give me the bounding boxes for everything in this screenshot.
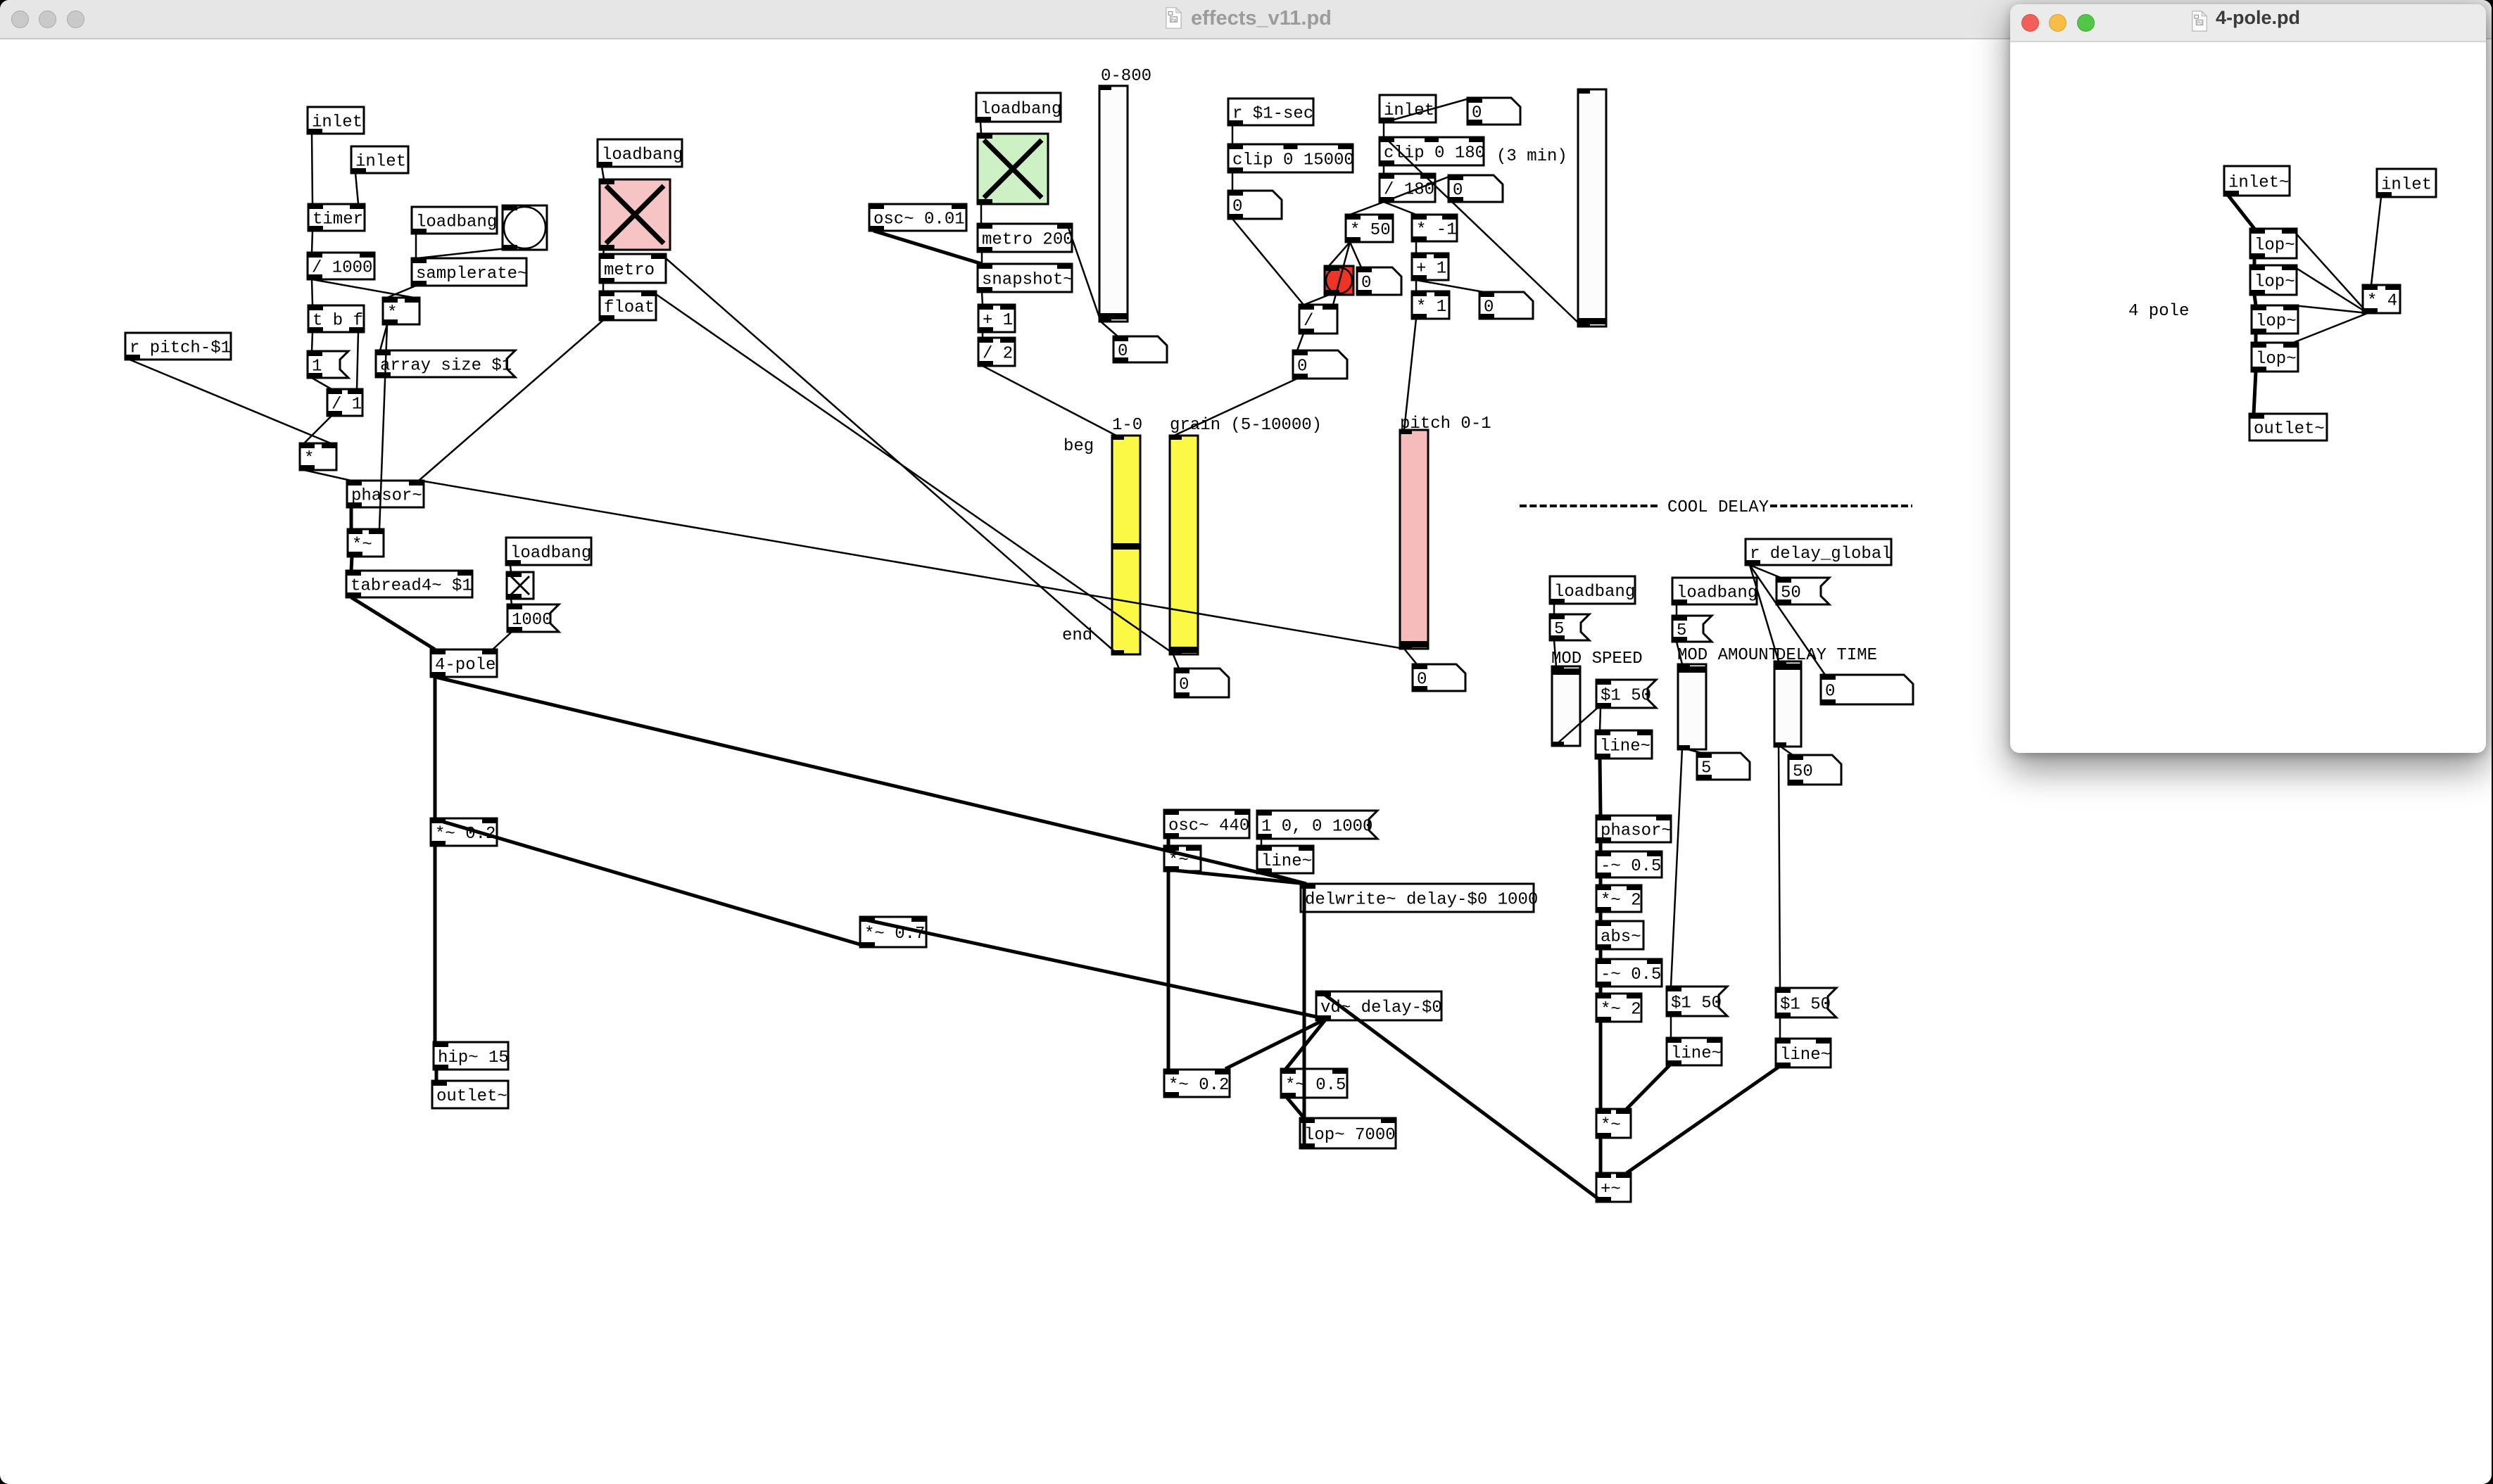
object loadbang (cutoff): [506, 538, 591, 565]
svg-text:$1 50: $1 50: [1601, 687, 1651, 706]
wire /1000 to * size R: [312, 279, 414, 298]
object * 4: [2363, 285, 2400, 313]
wire *~ to tabread4~: [351, 557, 352, 571]
wire loadbang to samplerate~: [415, 234, 417, 258]
traffic light close (inactive): [11, 11, 29, 28]
object / 180: [1380, 174, 1435, 202]
wire * 4 to lop~ 4 R: [2293, 313, 2368, 343]
wire mod amount slider to $1 50: [1671, 748, 1682, 987]
object lop~ 3: [2252, 305, 2298, 334]
svg-text:50: 50: [1781, 584, 1801, 603]
wire * 4 to lop~ 2 R: [2292, 265, 2368, 313]
object -~ 0.5 (b): [1596, 959, 1662, 987]
svg-text:vd~ delay-$0: vd~ delay-$0: [1320, 998, 1442, 1017]
svg-text:/ 2: / 2: [983, 345, 1013, 364]
number 0 (grain): [1175, 668, 1229, 697]
wire *~ 0.2 to hip~: [434, 846, 437, 1042]
wire inlet~ to lop~ 1: [2228, 196, 2254, 229]
svg-text:loadbang: loadbang: [1677, 584, 1757, 603]
object *~ (mod mult): [1596, 1109, 1631, 1138]
object r delay_global: [1746, 539, 1892, 565]
svg-text:hip~ 15: hip~ 15: [438, 1048, 509, 1067]
wire tabread4~ to 4-pole: [351, 597, 435, 649]
vslider 0-800: [1099, 86, 1128, 322]
svg-text:0: 0: [1472, 104, 1482, 123]
wire $1 50 to line~ amt: [1670, 1016, 1672, 1038]
object loadbang (metro): [598, 139, 683, 167]
svg-text:inlet~: inlet~: [2228, 174, 2289, 193]
wire msg 1 0 0 1000 to line~: [1261, 839, 1263, 846]
object loadbang (samplerate): [412, 207, 497, 234]
svg-text:+ 1: + 1: [983, 311, 1013, 330]
svg-text:phasor~: phasor~: [1601, 822, 1672, 841]
comment COOL DELAY header: [1520, 498, 1912, 517]
wire lop~ 4 to outlet~: [2254, 372, 2256, 414]
svg-text:0: 0: [1179, 676, 1189, 695]
wire pitch slider to number 0: [1404, 649, 1417, 664]
svg-text:line~: line~: [1780, 1046, 1831, 1065]
svg-text:loadbang: loadbang: [1554, 583, 1635, 602]
object inlet (timer R): [351, 146, 408, 173]
wire toggle to msg 1000: [511, 599, 512, 604]
vslider mod speed: [1552, 666, 1580, 746]
svg-text:loadbang: loadbang: [602, 146, 683, 165]
object vd~ delay-$0: [1316, 991, 1442, 1020]
wire 0-800 slider to number: [1101, 322, 1118, 336]
wire t b f to msg 1: [312, 332, 313, 351]
wire bng to / L: [1304, 295, 1329, 305]
svg-text:beg: beg: [1064, 437, 1094, 456]
wire sec slider out to clip 0 180: [1384, 137, 1582, 326]
svg-text:0: 0: [1484, 298, 1494, 317]
wire grain slider to number 0: [1173, 653, 1179, 668]
traffic light minimize: [2049, 14, 2066, 32]
number 0 (pitch): [1413, 664, 1465, 691]
svg-text:line~: line~: [1261, 852, 1312, 871]
svg-text:*: *: [304, 450, 314, 469]
pd document icon: [1166, 7, 1182, 29]
wire loadbang to msg 5 speed: [1553, 604, 1555, 614]
wire lop~ 1 to lop~ 2: [2253, 258, 2257, 265]
wire *~ 2 to abs~: [1599, 912, 1603, 921]
svg-text:1000: 1000: [512, 611, 553, 630]
svg-text:/: /: [1304, 312, 1313, 331]
svg-text:r $1-sec: r $1-sec: [1232, 105, 1313, 124]
svg-text:array size $1: array size $1: [380, 357, 512, 376]
svg-text:1: 1: [312, 357, 322, 376]
svg-text:1 0, 0 1000: 1 0, 0 1000: [1261, 818, 1372, 837]
wire lop~ 3 to lop~ 4: [2254, 334, 2258, 343]
svg-text:* -1: * -1: [1416, 221, 1457, 240]
traffic light close: [2021, 14, 2039, 32]
wire number 0 to / L: [1232, 219, 1304, 305]
wire osc~ 440 to *~: [1167, 837, 1170, 846]
object / 1: [327, 389, 362, 416]
object / (div): [1299, 305, 1337, 334]
wire line~ speed to phasor~ mod: [1600, 757, 1601, 816]
wire r $1-sec to clip: [1232, 125, 1234, 144]
number 0 (x50): [1357, 267, 1401, 295]
wire inlet to * 4: [2371, 197, 2381, 285]
object clip 0 15000: [1228, 144, 1354, 172]
svg-text:abs~: abs~: [1601, 928, 1641, 947]
toggle (cutoff): [507, 572, 534, 599]
wire mod amount slider to number 5: [1682, 748, 1701, 753]
object lop~ 4: [2252, 343, 2298, 372]
svg-text:samplerate~: samplerate~: [416, 265, 527, 284]
svg-text:0: 0: [1417, 671, 1427, 690]
svg-text:0: 0: [1118, 342, 1128, 361]
object loadbang (mod speed): [1550, 576, 1635, 604]
object *~ (playback): [348, 529, 384, 557]
svg-text:grain (5-10000): grain (5-10000): [1170, 416, 1322, 435]
svg-text:line~: line~: [1600, 737, 1651, 756]
object osc~ 440: [1164, 810, 1249, 838]
message 1000: [507, 604, 559, 632]
object outlet~ (4-pole): [2249, 414, 2327, 440]
svg-text:lop~: lop~: [2256, 350, 2297, 369]
wire *~ 0.5 to lop~: [1286, 1096, 1304, 1118]
object lop~ 1: [2250, 229, 2297, 258]
wire grain slider out to float R: [652, 291, 1173, 653]
object *~ (beep): [1164, 846, 1201, 871]
wire * size to *~ R: [379, 324, 387, 529]
wire t b f to /1 R: [357, 332, 358, 389]
wire / 2 to beg slider: [983, 366, 1116, 436]
wire + 1 to * 1: [1415, 280, 1418, 291]
svg-text:* 4: * 4: [2367, 292, 2397, 311]
message 1: [308, 351, 348, 378]
object abs~: [1596, 921, 1643, 949]
message 1 0, 0 1000: [1257, 811, 1377, 839]
svg-text:*~ 2: *~ 2: [1601, 892, 1641, 911]
wire -~ 0.5 to *~ 2: [1599, 877, 1603, 885]
wire clip 0 180 to / 180: [1383, 165, 1385, 174]
wire $1 50 to line~ dt: [1779, 1017, 1781, 1039]
message array size $1: [376, 350, 515, 377]
wire / 180 to * 50: [1350, 202, 1384, 215]
object *~ 0.2 (wet gain): [1164, 1070, 1230, 1097]
object / 1000: [308, 253, 374, 279]
object + 1 (dir): [1412, 253, 1449, 280]
svg-text:osc~ 440: osc~ 440: [1168, 817, 1249, 836]
svg-text:MOD AMOUNT: MOD AMOUNT: [1677, 646, 1779, 665]
svg-text:outlet~: outlet~: [436, 1087, 507, 1106]
wire r delay_global to number 0: [1750, 565, 1825, 675]
wire mod speed slider to $1 50: [1556, 706, 1599, 744]
svg-text:0: 0: [1453, 182, 1463, 201]
wire inlet to clip 0 180: [1383, 122, 1385, 137]
vslider pitch pink: [1400, 430, 1428, 649]
window title 4-pole.pd: [2216, 7, 2300, 29]
wire -~ 0.5 b to *~ 2 b: [1599, 987, 1603, 994]
svg-text:metro: metro: [604, 261, 655, 280]
pd document icon small: [2192, 11, 2207, 32]
wire *~ beep to *~ 0.2 wet: [1167, 870, 1170, 1070]
svg-text:5: 5: [1701, 759, 1711, 778]
wire abs~ to -~ 0.5 b: [1599, 949, 1603, 959]
wire * 4 to lop~ 1 R: [2292, 229, 2368, 313]
wire inletA to timer: [312, 134, 313, 204]
object / 2: [978, 338, 1015, 366]
svg-text:0: 0: [1825, 683, 1835, 702]
wire inlet to number 0 raw: [1384, 98, 1472, 122]
object inlet (timer L): [308, 107, 364, 134]
svg-text:(3 min): (3 min): [1496, 147, 1567, 166]
wire 4-pole to *~ 0.2: [434, 677, 437, 818]
wire *~ 2 b to *~ mult: [1599, 1022, 1603, 1109]
wire lop~ 2 to lop~ 3: [2254, 295, 2256, 305]
object + 1 (snap): [978, 305, 1015, 332]
wire beg slider out to metro R: [661, 254, 1116, 653]
wire * 4 to lop~ 3 R: [2293, 305, 2368, 313]
message $1 50 (mod amt): [1667, 987, 1727, 1016]
object loadbang (grain metro): [976, 93, 1061, 122]
wire bng to samplerate~: [417, 248, 507, 258]
number 50 (delay time): [1788, 755, 1841, 785]
object inlet (minutes): [1380, 95, 1436, 122]
object *~ 0.2 (out gain): [431, 818, 497, 846]
svg-text:/ 1000: / 1000: [312, 259, 372, 278]
svg-text:*~ 0.2: *~ 0.2: [1168, 1076, 1229, 1095]
object 4-pole: [431, 649, 497, 677]
svg-text:inlet: inlet: [312, 113, 362, 132]
object +~ (delay sum): [1596, 1173, 1631, 1202]
object r $1-sec: [1228, 99, 1313, 125]
wire msg 1000 to 4-pole R: [493, 632, 512, 649]
wire 4-pole to delwrite~: [435, 677, 1306, 884]
svg-text:-~ 0.5: -~ 0.5: [1601, 857, 1661, 876]
object osc~ 0.01: [869, 204, 966, 231]
object hip~ 15: [434, 1042, 509, 1070]
svg-text:loadbang: loadbang: [510, 544, 591, 563]
svg-text:lop~: lop~: [2254, 236, 2295, 255]
wire + 1 to / 2: [982, 331, 984, 338]
wire snapshot~ to + 1: [982, 292, 983, 305]
wire clip to number 0: [1232, 172, 1234, 191]
svg-text:lop~: lop~: [2254, 273, 2295, 292]
wire loadbang to green toggle: [980, 122, 981, 134]
object delwrite~ delay-$0 1000: [1301, 884, 1538, 912]
svg-text:0: 0: [1232, 198, 1242, 217]
svg-text:/ 1: / 1: [332, 395, 362, 414]
wire * 50 to / R: [1333, 242, 1350, 305]
wire inletB to timer R: [355, 173, 358, 204]
object *~ 2 (b): [1596, 994, 1641, 1022]
object snapshot~: [978, 264, 1073, 292]
svg-text:+~: +~: [1601, 1180, 1621, 1199]
wire $1 50 to line~ speed: [1600, 708, 1601, 730]
object *~ 2 (a): [1596, 885, 1641, 912]
svg-text:50: 50: [1793, 763, 1813, 782]
object *~ 0.5: [1281, 1069, 1347, 1098]
wire * -1 to + 1: [1415, 241, 1418, 253]
wire * size to msg array size: [380, 324, 387, 350]
wire msg 5 to mod speed slider: [1554, 640, 1556, 666]
wire /1000 to t b f: [312, 279, 313, 305]
wire loadbang to toggle: [510, 565, 511, 572]
svg-text:clip 0 180: clip 0 180: [1384, 144, 1485, 163]
svg-text:*: *: [387, 304, 397, 323]
svg-text:4 pole: 4 pole: [2128, 302, 2189, 321]
object metro: [600, 254, 666, 283]
svg-text:r delay_global: r delay_global: [1750, 545, 1892, 564]
wire /1 to *: [304, 416, 332, 443]
svg-text:1-0: 1-0: [1112, 416, 1142, 435]
wire hip~ to outlet~: [435, 1070, 438, 1081]
window title effects_v11.pd: [1191, 7, 1332, 30]
number 0 (delay global): [1821, 675, 1913, 704]
svg-text:*~ 2: *~ 2: [1601, 1001, 1641, 1020]
bang button red flash: [1325, 266, 1353, 295]
wire phasor~ to *~: [350, 507, 353, 529]
object lop~ 7000: [1300, 1118, 1396, 1148]
wire * 1 to pitch slider: [1404, 319, 1416, 430]
wire * to phasor~: [304, 470, 351, 481]
wire / 180 to * -1: [1384, 202, 1416, 215]
wire vd~ to *~ 0.7: [865, 920, 1326, 1019]
svg-text:Pd: Pd: [1170, 18, 1176, 23]
toggle (metro on) pink: [600, 179, 670, 250]
svg-text:timer: timer: [313, 210, 363, 229]
svg-text:-~ 0.5: -~ 0.5: [1601, 965, 1661, 984]
svg-text:COOL DELAY: COOL DELAY: [1667, 498, 1769, 517]
toggle (grain on) green: [978, 134, 1048, 204]
svg-text:0: 0: [1297, 357, 1307, 376]
message 5 (mod speed): [1550, 614, 1589, 640]
wire lop~ to delwrite~ feedback: [1303, 885, 1306, 1146]
svg-text:/ 180: / 180: [1384, 181, 1434, 200]
wire *~ beep to delwrite~: [1168, 870, 1306, 884]
subpatch window 4-pole.pd: [2010, 4, 2486, 753]
svg-text:lop~: lop~: [2256, 312, 2297, 331]
vslider 0-180 sec: [1578, 89, 1606, 326]
svg-text:$1 50: $1 50: [1780, 996, 1831, 1015]
svg-text:float: float: [604, 298, 655, 317]
message $1 50 (delay time): [1776, 988, 1836, 1017]
object * 50: [1346, 215, 1393, 242]
svg-text:t b f: t b f: [313, 312, 363, 331]
svg-text:* 50: * 50: [1350, 221, 1391, 240]
bang button (samplerate): [503, 205, 547, 250]
wire loadbang to pink toggle: [602, 167, 604, 179]
message $1 50 (mod speed): [1596, 680, 1656, 708]
object loadbang (mod amount): [1672, 578, 1757, 604]
wire * 50 to number 0: [1350, 242, 1361, 267]
svg-text:delwrite~ delay-$0 1000: delwrite~ delay-$0 1000: [1305, 891, 1538, 910]
wire metro to float: [602, 283, 605, 291]
subpatch canvas: [2010, 4, 2486, 753]
object phasor~ (mod): [1596, 816, 1672, 842]
object inlet (4-pole): [2377, 169, 2436, 197]
svg-text:clip 0 15000: clip 0 15000: [1232, 151, 1354, 170]
object float: [600, 291, 656, 320]
wire r delay_global to msg 50: [1750, 565, 1781, 578]
svg-text:loadbang: loadbang: [980, 100, 1061, 119]
object -~ 0.5 (a): [1596, 851, 1662, 877]
wire pitch slider to phasor~ R: [420, 481, 1404, 649]
wire vd~ to *~ 0.5: [1286, 1019, 1326, 1069]
object clip 0 180: [1380, 137, 1485, 165]
wire / 180 to number 0 frac: [1384, 175, 1453, 202]
object line~ (beep env): [1257, 846, 1313, 873]
wire msg 1 to /1: [312, 378, 332, 389]
number 0 (sec): [1228, 191, 1282, 219]
wire delay slider to $1 50 dt: [1779, 745, 1780, 988]
number 5 (mod amount): [1697, 753, 1750, 780]
object inlet~ (4-pole): [2224, 166, 2290, 196]
wire pink toggle to metro: [603, 250, 604, 254]
wire green toggle to metro 200: [980, 204, 983, 224]
traffic light zoom (inactive): [67, 11, 84, 28]
svg-text:inlet: inlet: [2381, 176, 2432, 195]
wire r pitch-$1 to * R: [130, 360, 331, 443]
svg-text:tabread4~ $1: tabread4~ $1: [351, 577, 472, 596]
wire number 0 div to grain slider: [1174, 379, 1297, 436]
svg-text:*~: *~: [1601, 1116, 1621, 1135]
message 50: [1776, 578, 1829, 604]
svg-text:loadbang: loadbang: [416, 213, 497, 232]
object line~ (mod amt): [1667, 1038, 1722, 1065]
svg-text:4-pole: 4-pole: [435, 656, 496, 675]
svg-text:0-800: 0-800: [1101, 67, 1151, 86]
svg-text:phasor~: phasor~: [351, 487, 422, 506]
object line~ (mod speed): [1596, 730, 1652, 759]
svg-text:outlet~: outlet~: [2254, 420, 2325, 439]
wire / to number 0 div: [1297, 334, 1304, 350]
svg-text:5: 5: [1554, 620, 1564, 639]
svg-text:line~: line~: [1671, 1044, 1722, 1063]
svg-text:snapshot~: snapshot~: [982, 271, 1073, 290]
object *~ 0.7 (feedback): [860, 917, 926, 947]
svg-text:*~ 0.5: *~ 0.5: [1285, 1076, 1346, 1095]
svg-text:osc~ 0.01: osc~ 0.01: [873, 210, 965, 229]
message 5 (mod amount): [1672, 616, 1712, 642]
object timer: [308, 204, 365, 231]
vslider delay time: [1774, 661, 1801, 747]
svg-text:lop~ 7000: lop~ 7000: [1304, 1126, 1396, 1145]
wire * 50 to bng: [1329, 242, 1350, 266]
object lop~ 2: [2250, 265, 2297, 295]
wire line~ dt to +~ R: [1627, 1066, 1780, 1173]
object * (size): [383, 298, 419, 324]
vslider beg-end yellow: [1112, 436, 1140, 654]
wire 0-800 slider to metro 200 R: [1067, 224, 1101, 322]
wire delay slider to number 50: [1779, 745, 1793, 755]
wire +~ to vd~: [1320, 991, 1601, 1200]
object line~ (delay time): [1776, 1039, 1831, 1067]
vslider grain yellow: [1170, 436, 1198, 654]
number 0 (div out): [1293, 350, 1347, 379]
wire line~ beep to delwrite~: [1261, 872, 1306, 884]
wire msg 5 to mod amount slider: [1677, 642, 1682, 664]
object outlet~: [432, 1081, 508, 1108]
svg-text:r pitch-$1: r pitch-$1: [130, 339, 231, 358]
wire timer to /1000: [312, 231, 313, 253]
svg-text:*~: *~: [352, 535, 372, 554]
wire *~ 0.7 to *~ 0.2 L: [436, 820, 864, 946]
number 0 (dir out): [1479, 292, 1533, 319]
svg-text:5: 5: [1677, 621, 1686, 640]
svg-text:metro 200: metro 200: [982, 231, 1073, 250]
wire line~ amt to *~ mult R: [1627, 1064, 1671, 1109]
object phasor~: [347, 481, 424, 507]
svg-text:* 1: * 1: [1416, 298, 1446, 317]
object samplerate~: [412, 258, 527, 286]
wire metro 200 to snapshot~: [981, 252, 983, 264]
object * (pitch): [300, 443, 336, 470]
object * -1: [1412, 215, 1457, 241]
